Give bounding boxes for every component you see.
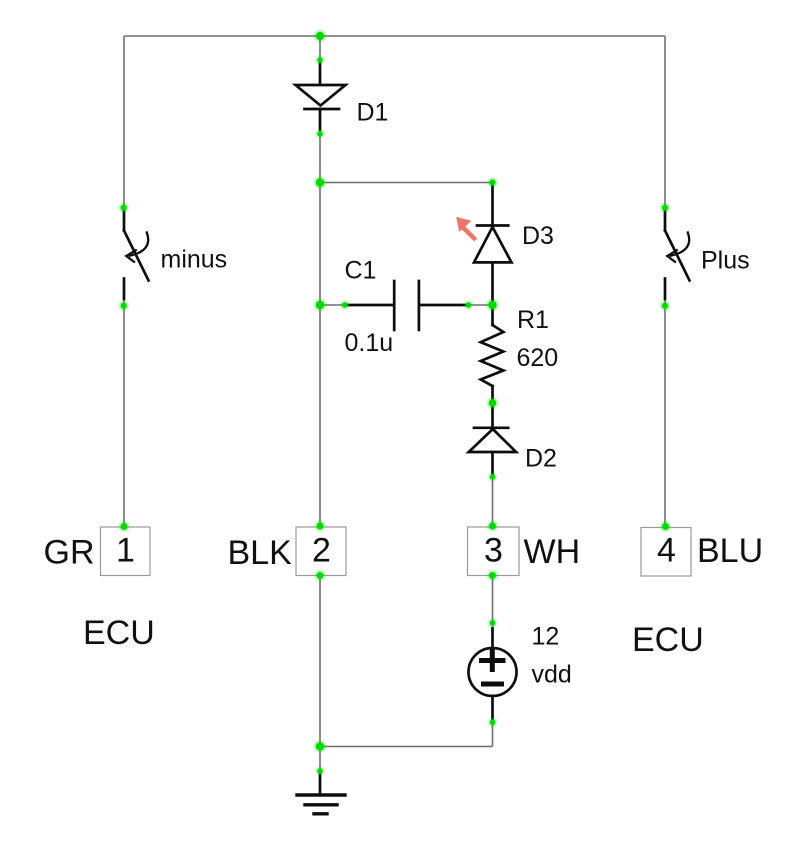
wire WH rail vdd to corner — [492, 720, 494, 747]
node D3/R1 junction — [488, 301, 496, 309]
svg-text:R1: R1 — [517, 306, 549, 334]
node pin1 top — [121, 523, 128, 530]
node C1 right lead — [466, 302, 471, 307]
node switch minus top — [121, 205, 127, 211]
node bottom BLK junction — [316, 742, 324, 750]
svg-text:12: 12 — [532, 623, 560, 651]
node R1/D2 junction — [489, 399, 496, 406]
pin 1 box — [101, 527, 151, 576]
pin 2 box — [296, 527, 346, 576]
node BLK/D3 junction — [316, 178, 324, 186]
wire D3 top stub — [492, 183, 494, 188]
wire BLK rail below pin2 — [319, 575, 321, 747]
wire WH rail D2 to pin3 — [492, 477, 494, 527]
svg-text:0.1u: 0.1u — [345, 329, 394, 357]
resistor R1 — [481, 305, 504, 403]
switch Plus — [665, 211, 690, 300]
node vdd minus — [490, 720, 495, 725]
svg-text:GR: GR — [44, 534, 95, 572]
svg-text:ECU: ECU — [83, 614, 155, 652]
node BLK/C1 junction — [316, 301, 324, 309]
node top BLK — [316, 32, 324, 40]
node switch Plus bottom — [662, 303, 668, 309]
pin 3 box — [468, 527, 520, 576]
node dot halos — [119, 30, 671, 775]
wire left rail lower — [123, 298, 125, 527]
node junction dots — [121, 32, 669, 774]
voltage source V1 vdd — [469, 628, 517, 719]
svg-text:D1: D1 — [357, 99, 389, 127]
svg-text:3: 3 — [484, 532, 503, 570]
LED D3 — [474, 185, 512, 305]
svg-text:Plus: Plus — [701, 247, 750, 275]
wire capacitor left stub — [320, 304, 346, 306]
wire BLK rail C1 to pin2 — [319, 305, 321, 527]
capacitor C1 — [346, 281, 468, 330]
ground — [297, 774, 345, 814]
svg-text:C1: C1 — [345, 257, 377, 285]
node switch Plus top — [662, 205, 668, 211]
wire BLK to ground — [319, 747, 321, 776]
wire WH rail pin3 to vdd — [492, 575, 494, 626]
node D2 bottom — [490, 474, 495, 479]
node pin2 top — [317, 523, 324, 530]
LED arrow D3 — [456, 217, 477, 242]
svg-text:BLU: BLU — [697, 532, 763, 570]
node switch minus bottom — [121, 303, 127, 309]
svg-text:2: 2 — [312, 532, 331, 570]
wire bottom horizontal — [320, 746, 493, 748]
diode D2 — [469, 403, 516, 477]
wire right rail lower — [664, 298, 666, 527]
wire left rail upper — [123, 36, 125, 211]
svg-text:620: 620 — [517, 344, 559, 372]
node ground top — [317, 768, 322, 773]
svg-text:D2: D2 — [525, 445, 557, 473]
svg-text:BLK: BLK — [228, 534, 293, 572]
node D1 cathode — [317, 131, 322, 136]
wire node2 to D3 horizontal — [320, 182, 493, 184]
node pin4 top — [662, 523, 669, 530]
switch minus — [124, 211, 149, 300]
svg-text:WH: WH — [524, 533, 581, 571]
diode D1 — [296, 62, 346, 130]
svg-text:1: 1 — [116, 532, 135, 570]
node vdd plus — [490, 620, 495, 625]
svg-text:4: 4 — [657, 532, 676, 570]
svg-text:vdd: vdd — [532, 661, 572, 689]
svg-text:minus: minus — [161, 246, 228, 274]
node pin2 bottom — [317, 572, 324, 579]
node pin3 top — [489, 523, 496, 530]
wire BLK rail D1 to C1 — [319, 130, 321, 305]
node C1 left lead — [342, 302, 347, 307]
wire top horizontal — [124, 35, 665, 37]
wire capacitor right stub — [467, 304, 493, 306]
node pin3 bottom — [489, 572, 496, 579]
svg-text:D3: D3 — [522, 222, 554, 250]
wire right rail upper — [664, 36, 666, 211]
node D3 top — [490, 180, 496, 186]
node D1 anode — [317, 57, 322, 62]
pin 4 box — [641, 528, 691, 577]
svg-text:ECU: ECU — [632, 621, 704, 659]
wire BLK rail above D1 — [319, 36, 321, 62]
